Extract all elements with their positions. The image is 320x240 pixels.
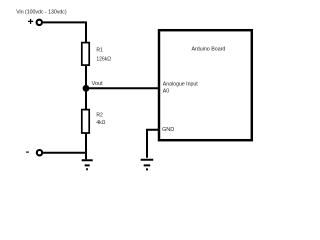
terminal - (negative input) <box>26 151 29 153</box>
wire R1 bottom to node Vout <box>85 65 87 88</box>
wire GND pin to ground <box>147 130 159 158</box>
terminal circle bottom (-) <box>37 150 42 155</box>
resistor R2 <box>82 110 89 133</box>
resistor R1 <box>82 43 89 66</box>
wire bottom: terminal to ground rail <box>43 152 86 154</box>
svg-text:R1: R1 <box>96 48 103 54</box>
terminal circle top (+) <box>37 20 42 25</box>
svg-text:R2: R2 <box>96 113 103 119</box>
svg-text:126kΩ: 126kΩ <box>96 56 111 62</box>
wire R2 bottom to ground <box>85 133 87 159</box>
wire top: terminal to R1 top <box>43 21 86 42</box>
ground symbol left <box>82 160 93 169</box>
svg-text:4kΩ: 4kΩ <box>96 120 105 126</box>
svg-text:GND: GND <box>162 127 174 133</box>
Arduino board box U1 <box>159 30 252 140</box>
svg-text:Analogue Input: Analogue Input <box>163 81 198 87</box>
svg-text:Vout: Vout <box>92 81 103 87</box>
node Vout junction dot <box>83 85 90 92</box>
svg-text:A0: A0 <box>163 89 169 95</box>
svg-text:Vin (100vdc - 130vdc): Vin (100vdc - 130vdc) <box>16 10 67 16</box>
ground symbol right <box>141 160 154 170</box>
svg-text:Arduino Board: Arduino Board <box>192 47 226 53</box>
terminal + (positive input) <box>28 19 33 24</box>
wire node Vout to R2 top <box>85 88 87 109</box>
wire node Vout to Arduino analogue input <box>86 87 159 89</box>
